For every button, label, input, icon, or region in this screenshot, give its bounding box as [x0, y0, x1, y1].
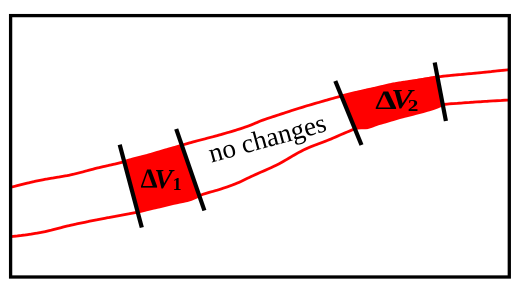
- svg-text:1: 1: [173, 174, 182, 194]
- svg-text:2: 2: [408, 97, 419, 116]
